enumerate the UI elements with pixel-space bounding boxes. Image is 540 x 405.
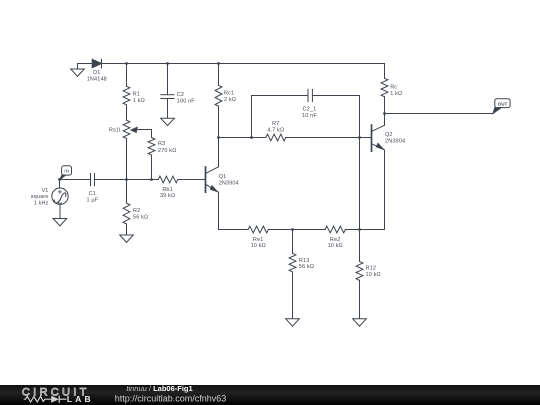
svg-text:1 kΩ: 1 kΩ [390, 91, 402, 97]
svg-text:2N3904: 2N3904 [385, 139, 405, 145]
svg-text:R13: R13 [299, 258, 310, 264]
svg-text:V1: V1 [41, 188, 48, 194]
svg-text:Rb1: Rb1 [162, 187, 173, 193]
svg-text:R3: R3 [158, 141, 165, 147]
svg-text:2 kΩ: 2 kΩ [224, 97, 236, 103]
svg-text:56 kΩ: 56 kΩ [299, 264, 314, 270]
svg-text:http://circuitlab.com/cfnhv63: http://circuitlab.com/cfnhv63 [115, 393, 227, 403]
svg-text:C2_1: C2_1 [303, 107, 317, 113]
svg-text:R1: R1 [133, 91, 140, 97]
svg-text:10 kΩ: 10 kΩ [366, 272, 381, 278]
svg-text:10 kΩ: 10 kΩ [251, 243, 266, 249]
svg-text:R7: R7 [272, 121, 279, 127]
svg-text:10 nF: 10 nF [302, 113, 317, 119]
svg-text:Q2: Q2 [385, 132, 393, 138]
svg-text:Re1: Re1 [253, 237, 264, 243]
svg-text:Rc1: Rc1 [224, 91, 234, 97]
svg-text:C1: C1 [89, 191, 96, 197]
svg-text:IN: IN [64, 169, 69, 174]
svg-text:Rs1l: Rs1l [109, 128, 121, 134]
svg-text:1 µF: 1 µF [86, 198, 98, 204]
svg-text:1 kHz: 1 kHz [34, 200, 49, 206]
svg-text:1N4148: 1N4148 [87, 77, 107, 83]
svg-text:Q1: Q1 [219, 174, 227, 180]
svg-text:tinnuu / Lab06-Fig1: tinnuu / Lab06-Fig1 [126, 384, 192, 393]
svg-text:D1: D1 [93, 70, 100, 76]
svg-text:R12: R12 [366, 266, 377, 272]
svg-text:2N3904: 2N3904 [219, 181, 239, 187]
svg-text:270 kΩ: 270 kΩ [158, 148, 176, 154]
svg-text:R2: R2 [133, 208, 140, 214]
svg-text:Re2: Re2 [330, 237, 341, 243]
svg-text:OUT: OUT [498, 101, 508, 106]
svg-text:square: square [31, 194, 49, 200]
svg-text:10 kΩ: 10 kΩ [328, 243, 343, 249]
svg-text:4.7 kΩ: 4.7 kΩ [267, 128, 284, 134]
svg-text:C2: C2 [177, 92, 184, 98]
svg-text:1 kΩ: 1 kΩ [133, 98, 145, 104]
svg-text:39 kΩ: 39 kΩ [160, 193, 175, 199]
svg-text:Rc: Rc [390, 85, 397, 91]
svg-text:LAB: LAB [67, 394, 94, 404]
svg-text:100 nF: 100 nF [177, 99, 196, 105]
svg-text:56 kΩ: 56 kΩ [133, 214, 148, 220]
